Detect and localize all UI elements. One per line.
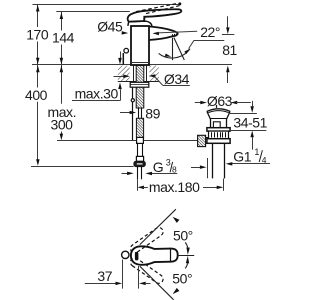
svg-text:170: 170 [26,27,49,43]
svg-text:144: 144 [52,30,75,46]
svg-text:Ø34: Ø34 [164,71,190,87]
svg-text:50°: 50° [173,227,193,243]
svg-text:300: 300 [51,117,74,133]
svg-text:Ø63: Ø63 [207,93,233,109]
svg-text:3: 3 [166,158,171,168]
svg-text:max.30: max.30 [75,86,119,102]
svg-text:G1: G1 [233,148,251,164]
svg-text:G: G [153,159,163,175]
svg-text:400: 400 [25,87,48,103]
svg-text:Ø45: Ø45 [97,18,123,34]
svg-text:81: 81 [222,42,237,58]
svg-text:1: 1 [254,147,259,157]
svg-text:max.180: max.180 [149,179,200,195]
svg-text:8: 8 [172,164,177,174]
svg-text:22°: 22° [200,24,220,40]
svg-text:37: 37 [97,268,112,284]
svg-text:89: 89 [145,105,160,121]
svg-text:34-51: 34-51 [233,114,267,130]
svg-text:50°: 50° [172,271,192,287]
